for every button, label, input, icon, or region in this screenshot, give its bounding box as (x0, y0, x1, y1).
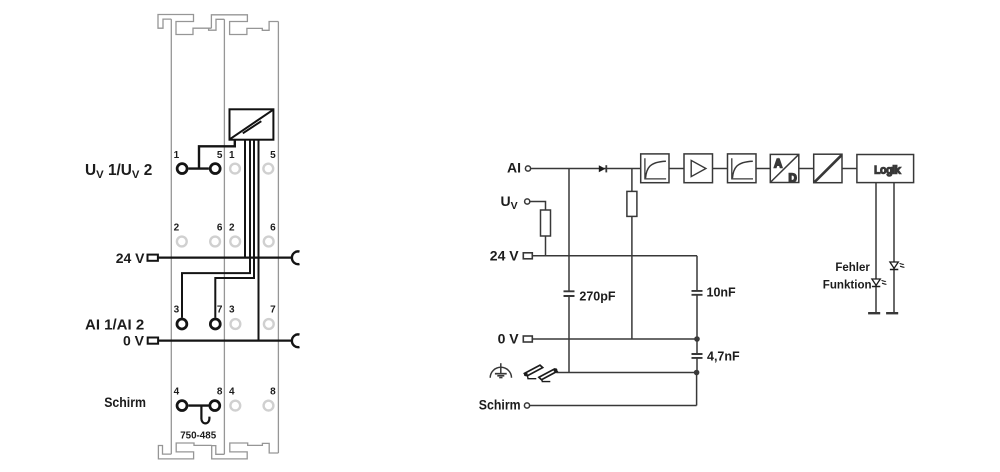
unused terminal slice2 pin2 (230, 237, 240, 247)
module housing left wall (170, 19, 172, 454)
wire converter to 24V rail (244, 140, 246, 258)
module housing bottom profile slice 1 (158, 443, 211, 459)
resistor R2 (627, 191, 637, 216)
module housing top profile slice 1 (158, 15, 211, 35)
module housing middle wall (223, 19, 225, 454)
wire 0V dot to 4.7nF (696, 339, 698, 354)
svg-text:4,7nF: 4,7nF (707, 349, 740, 363)
svg-text:6: 6 (270, 223, 276, 234)
svg-text:24 V: 24 V (490, 247, 519, 263)
module housing top profile slice 2 (211, 15, 278, 35)
DIN carrier rail symbol (524, 365, 558, 382)
svg-text:0 V: 0 V (498, 331, 520, 347)
svg-text:D: D (788, 173, 796, 185)
diode D1 (599, 165, 606, 172)
svg-text:2: 2 (174, 223, 180, 234)
svg-text:4: 4 (174, 387, 180, 398)
functional earth symbol (490, 363, 511, 378)
svg-text:Funktion: Funktion (823, 277, 872, 291)
svg-text:10nF: 10nF (707, 286, 737, 300)
terminal 8 (210, 401, 220, 411)
function block B5 galvanic isolation (814, 154, 842, 183)
0V rail wire (158, 340, 292, 342)
svg-text:5: 5 (217, 150, 223, 161)
junction dot earth rail (694, 370, 700, 376)
unused terminal slice2 pin3 (231, 319, 241, 329)
wire B1 to B2 (669, 168, 684, 170)
unused terminal slice1 pin6 (210, 237, 220, 247)
unused terminal slice2 pin6 (264, 237, 274, 247)
0V terminal box schematic (523, 336, 532, 342)
wire 0V rail schematic (532, 338, 697, 340)
svg-text:24 V: 24 V (116, 250, 145, 266)
svg-text:8: 8 (217, 387, 223, 398)
svg-text:UV 1/UV 2: UV 1/UV 2 (85, 162, 152, 181)
wire 4.7nF to earth dot (696, 358, 698, 372)
LED Fehler (890, 262, 905, 270)
module housing right wall (277, 22, 279, 454)
unused terminal slice2 pin1 (230, 164, 240, 174)
capacitor 4.7nF (692, 354, 703, 358)
unused terminal slice2 pin7 (264, 319, 274, 329)
wire from converter to terminals 1/5 (188, 140, 234, 169)
capacitor 270pF (564, 291, 575, 296)
svg-text:Schirm: Schirm (104, 395, 146, 410)
node AI input circle (525, 166, 530, 171)
svg-text:2: 2 (229, 223, 235, 234)
function block B3 filter (728, 154, 757, 183)
unused terminal slice2 pin4 (230, 401, 240, 411)
unused terminal slice1 pin2 (177, 237, 187, 247)
svg-text:4: 4 (229, 387, 235, 398)
svg-text:8: 8 (270, 387, 276, 398)
converter block U1 (isolated transducer) (230, 109, 274, 139)
24V rail continuation arc (292, 251, 300, 264)
wire B3 to B4 (756, 168, 770, 170)
svg-text:Schirm: Schirm (479, 398, 521, 413)
wire B4 to B5 (799, 168, 814, 170)
terminal 4 (177, 401, 187, 411)
svg-text:3: 3 (229, 305, 235, 316)
terminal 5 (210, 164, 220, 174)
svg-text:7: 7 (217, 305, 223, 316)
wire AI to resistor R2 (631, 169, 633, 192)
node UV input circle (525, 199, 530, 204)
shield hook symbol (201, 406, 209, 424)
wire converter to 0V rail (258, 140, 260, 341)
svg-text:AI: AI (507, 160, 521, 176)
function block U2 Logik (857, 155, 914, 183)
wire Schirm rail (530, 405, 697, 407)
svg-text:Fehler: Fehler (835, 260, 870, 274)
resistor R1 (541, 210, 551, 236)
svg-text:7: 7 (270, 305, 276, 316)
wire R1 to 24V rail (545, 236, 547, 256)
wire 10nF to 0V rail (696, 295, 698, 339)
wire AI junction down to 270pF (568, 169, 570, 291)
svg-text:1: 1 (229, 150, 235, 161)
wire Logik output Fehler (893, 183, 895, 314)
wire R2 to 0V rail (631, 216, 633, 339)
wire B5 to Logik (842, 168, 857, 170)
svg-text:Logik: Logik (874, 165, 901, 177)
module housing bottom profile slice 2 (212, 443, 279, 459)
svg-text:270pF: 270pF (579, 289, 615, 303)
terminal 1 (177, 164, 187, 174)
24V terminal box schematic (523, 253, 532, 259)
svg-text:AI 1/AI 2: AI 1/AI 2 (85, 316, 144, 333)
wire 10nF branch upper (696, 256, 698, 291)
0V rail continuation arc (292, 334, 300, 347)
wire 24V rail schematic (532, 255, 697, 257)
function block B1 input filter (641, 154, 669, 183)
unused terminal slice2 pin8 (264, 401, 274, 411)
24V rail wire (158, 257, 293, 259)
node Schirm input circle (524, 403, 529, 408)
shield wire terminal 4 to 8 (188, 404, 208, 406)
capacitor 10nF (692, 291, 703, 295)
svg-text:A: A (774, 158, 782, 170)
function block B4 A/D converter (770, 154, 799, 182)
24V feed terminal box (148, 255, 158, 261)
unused terminal slice2 pin5 (263, 164, 273, 174)
terminal 7 (210, 319, 220, 329)
svg-text:3: 3 (174, 305, 180, 316)
terminal 3 (177, 319, 187, 329)
wire earth rail (556, 372, 696, 374)
svg-text:1: 1 (174, 150, 180, 161)
module housing top interlock step 1-2 (209, 19, 225, 30)
svg-text:5: 5 (270, 150, 276, 161)
svg-text:6: 6 (217, 223, 223, 234)
wire AI line (531, 168, 641, 170)
LED return bar Funktion (868, 312, 880, 314)
LED Funktion (872, 279, 887, 287)
function block B2 amplifier (684, 154, 713, 183)
svg-text:0 V: 0 V (123, 333, 145, 349)
wire 270pF to earth rail (568, 297, 570, 373)
wire UV to resistor R1 (530, 202, 546, 211)
svg-text:750-485: 750-485 (180, 430, 217, 441)
wire converter to terminal 7 (215, 140, 254, 318)
LED return bar Fehler (886, 312, 898, 314)
wire Logik output Funktion (875, 183, 877, 314)
junction dot 0V / 10nF / 4.7nF (694, 336, 700, 342)
wire converter to terminal 3 (182, 140, 250, 318)
0V feed terminal box (148, 338, 158, 344)
wire earth dot down to Schirm rail (696, 373, 698, 406)
wire B2 to B3 (713, 168, 728, 170)
